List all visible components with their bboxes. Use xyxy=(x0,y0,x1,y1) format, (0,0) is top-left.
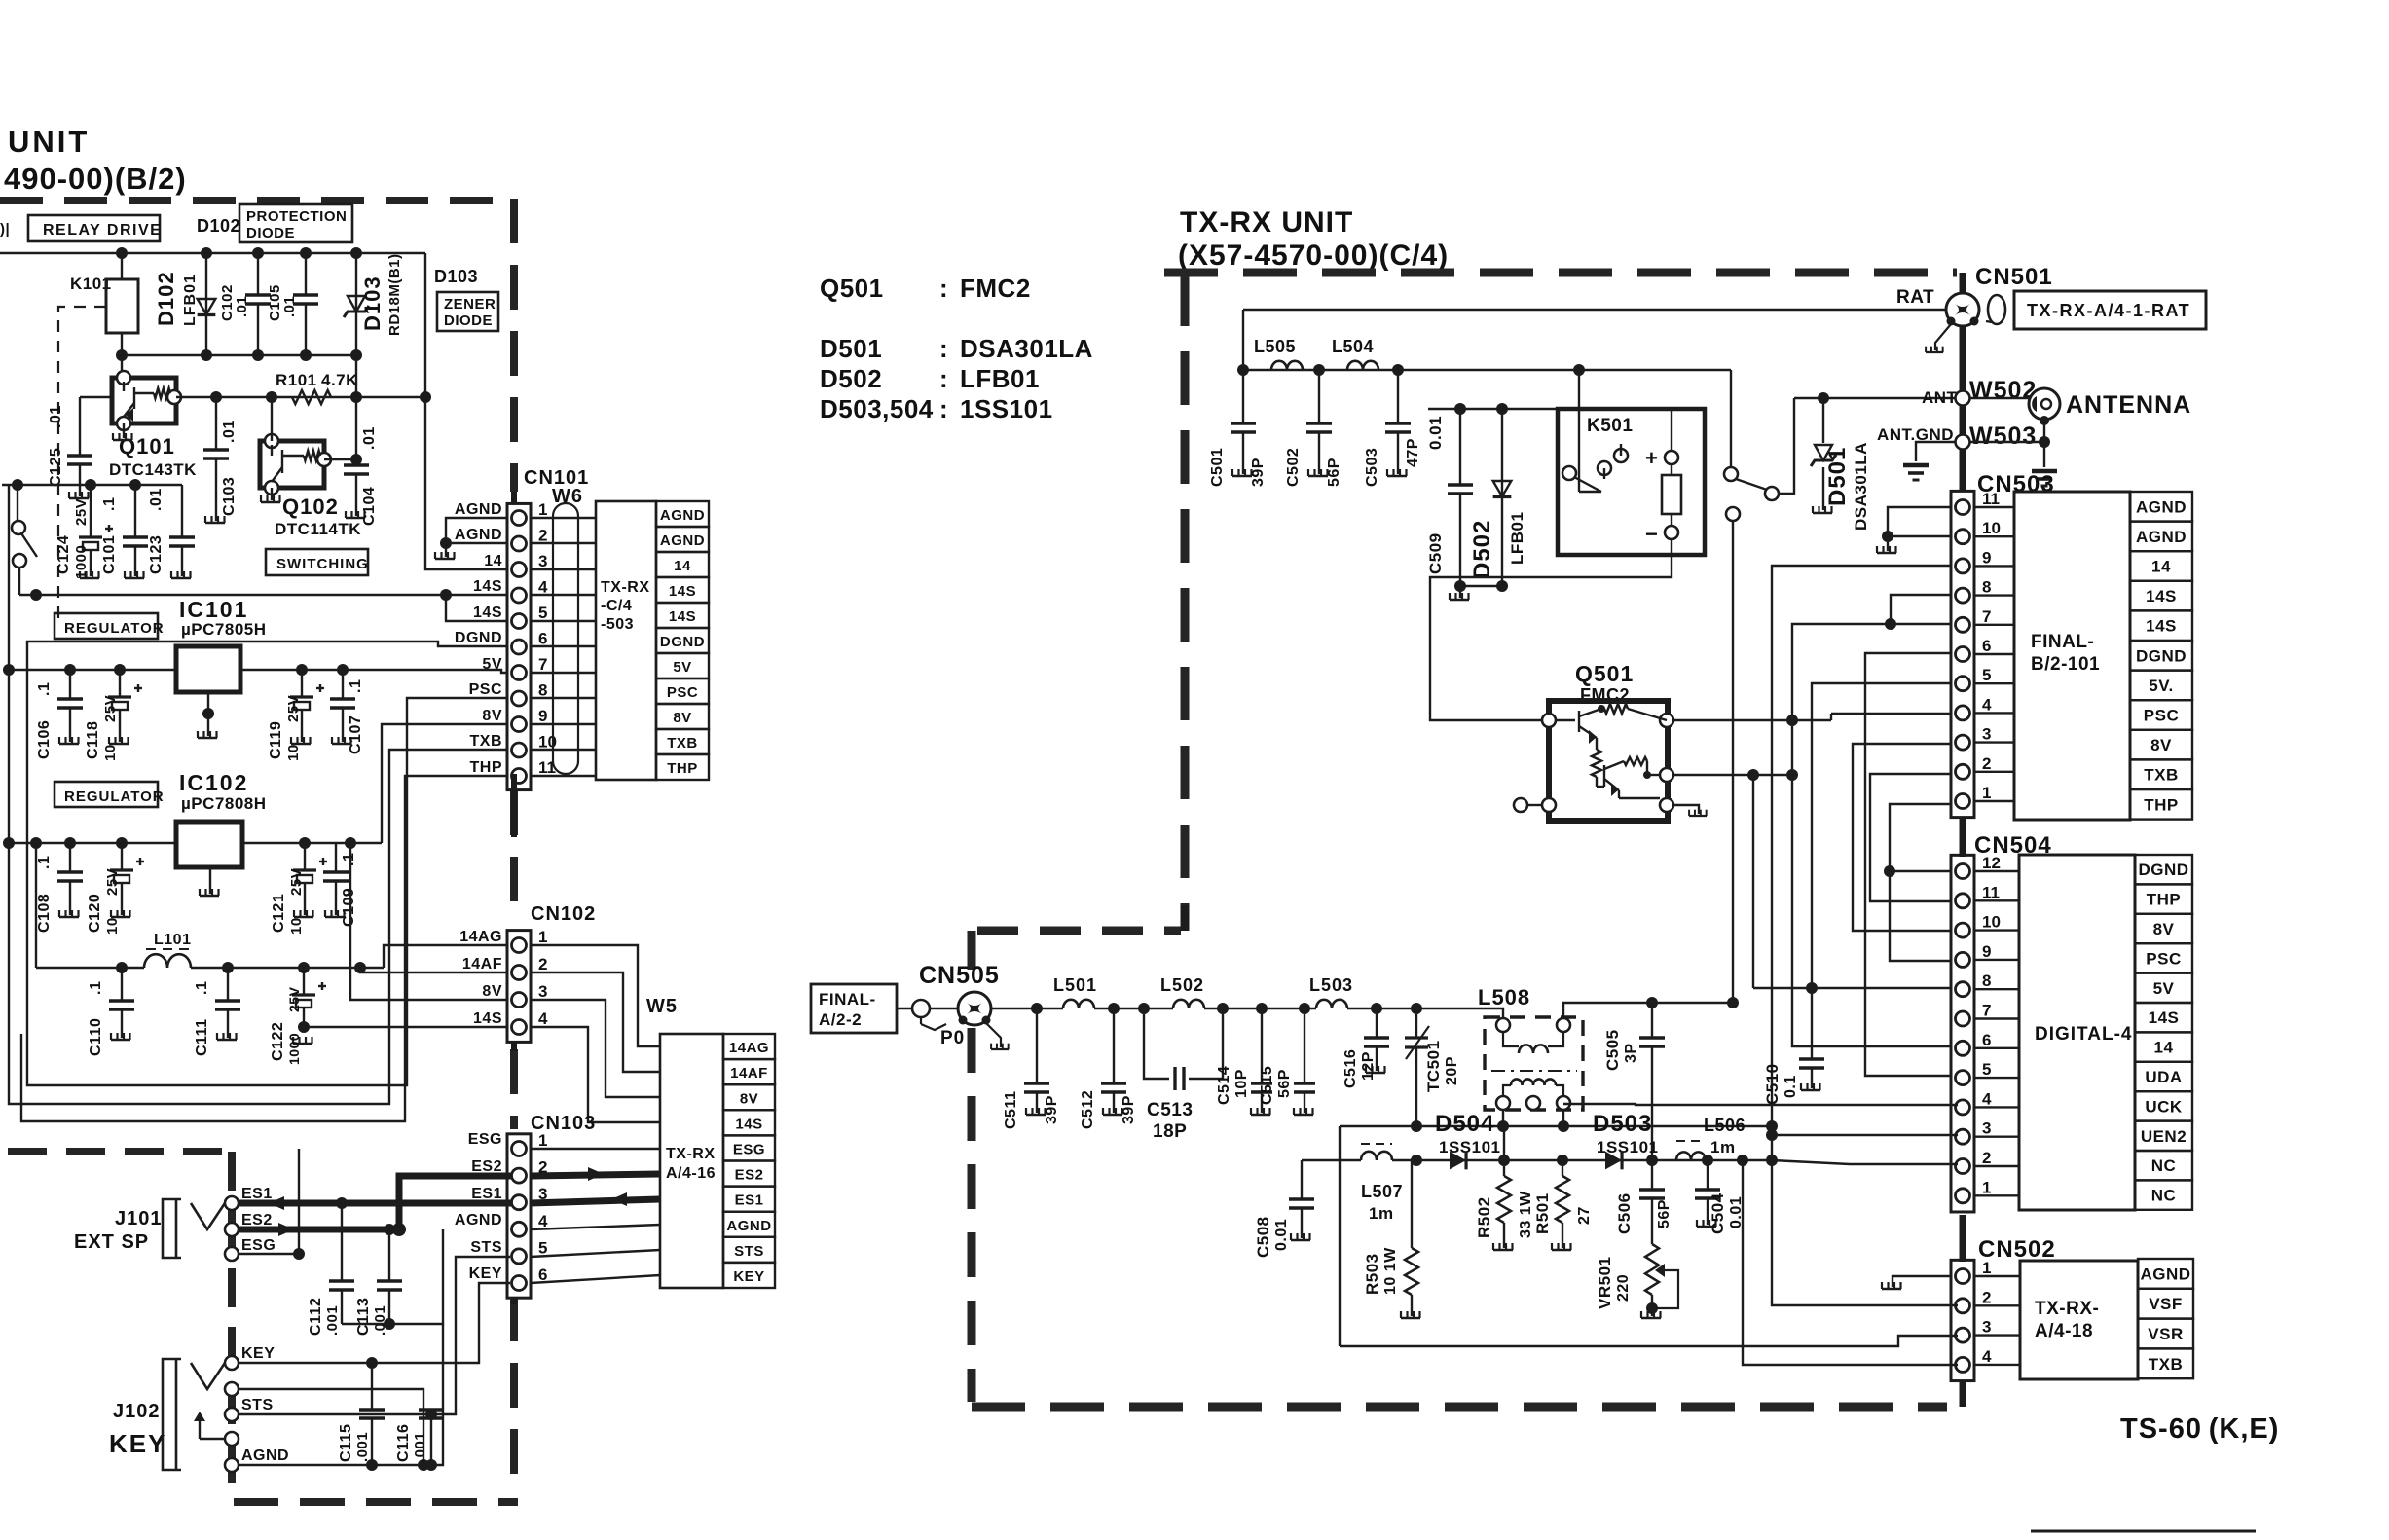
svg-text:D504: D504 xyxy=(1435,1111,1494,1137)
svg-text:NC: NC xyxy=(2151,1187,2177,1205)
wire TXB drop to CN502 pin4 xyxy=(1743,1160,1958,1365)
wire CN503 pin3 nest to CN504 pin10 xyxy=(1853,744,1958,931)
svg-text:.1: .1 xyxy=(88,981,104,995)
capacitor C508 0.01 xyxy=(1301,1160,1303,1192)
svg-text:14AF: 14AF xyxy=(462,956,502,972)
svg-text:D503,504: D503,504 xyxy=(820,394,934,423)
svg-text:DGND: DGND xyxy=(2138,861,2188,879)
svg-text:2: 2 xyxy=(538,955,547,973)
svg-text:4: 4 xyxy=(538,1212,548,1230)
svg-text:.1: .1 xyxy=(101,497,118,511)
svg-text:ZENER: ZENER xyxy=(444,296,496,312)
coax cable oval xyxy=(1988,295,2005,324)
capacitor C112 .001 xyxy=(329,1203,354,1324)
svg-text::: : xyxy=(939,364,948,393)
svg-text:D502: D502 xyxy=(1469,520,1495,579)
svg-text:D103: D103 xyxy=(434,267,478,286)
svg-text:.01: .01 xyxy=(221,420,238,443)
antenna switch xyxy=(1724,467,1738,481)
svg-text:D503: D503 xyxy=(1593,1111,1652,1137)
L508 divider xyxy=(1491,1070,1577,1072)
transistor Q101 DTC143TK xyxy=(112,378,176,423)
pin name table TX-RX-A/4-16 xyxy=(723,1034,775,1288)
capacitor C109 .1 xyxy=(323,843,349,915)
svg-text:FMC2: FMC2 xyxy=(960,274,1031,303)
svg-text:J102: J102 xyxy=(113,1401,161,1422)
svg-text:5V: 5V xyxy=(2153,979,2175,998)
IC102 regulator box xyxy=(176,822,242,867)
svg-text:TS-60 (K,E): TS-60 (K,E) xyxy=(2120,1413,2279,1445)
svg-text:D502: D502 xyxy=(820,364,882,393)
capacitor C115 .001 xyxy=(359,1363,385,1465)
wire TX line from switch to filter xyxy=(1732,521,1734,1003)
svg-text:C104: C104 xyxy=(361,487,378,526)
wire W502 ANT to ANTENNA xyxy=(1969,397,2030,399)
svg-text:TX-RX-: TX-RX- xyxy=(2035,1299,2099,1319)
svg-text:AGND: AGND xyxy=(455,527,502,543)
svg-text:L503: L503 xyxy=(1309,975,1353,995)
CN101 connector stem top xyxy=(511,492,517,504)
capacitor C107 .1 xyxy=(330,670,355,742)
node dots on top rail xyxy=(116,247,128,259)
svg-text:14AG: 14AG xyxy=(729,1040,769,1056)
svg-text:C516: C516 xyxy=(1342,1049,1359,1088)
svg-text:.1: .1 xyxy=(348,679,364,693)
wire rail L502 to L503 xyxy=(1204,1008,1316,1009)
svg-text:C512: C512 xyxy=(1080,1090,1096,1129)
svg-text:0.01: 0.01 xyxy=(1426,416,1445,450)
svg-text:8V: 8V xyxy=(740,1090,758,1107)
destination box DIGITAL-4 xyxy=(2019,855,2135,1210)
wire CN503 pin4 from Q501 collector xyxy=(1831,713,1952,715)
svg-text:.001: .001 xyxy=(412,1432,428,1462)
wire switch riser from filter rail xyxy=(1730,370,1732,467)
resistor R502 33 1W xyxy=(1503,1160,1505,1176)
wire filter loop y=1157 xyxy=(1340,1125,1772,1127)
svg-text:C511: C511 xyxy=(1003,1091,1019,1129)
wire ESG jack to riser xyxy=(239,1253,299,1255)
svg-text:8V: 8V xyxy=(482,708,502,724)
wires CN502 pins to box xyxy=(1974,1275,2020,1277)
wire RAT line xyxy=(1243,309,1945,311)
svg-text:ES2: ES2 xyxy=(471,1158,502,1175)
svg-text:14S: 14S xyxy=(2149,1008,2180,1027)
CN505 sense contact xyxy=(912,1000,930,1017)
svg-text:27: 27 xyxy=(1576,1206,1593,1225)
node ANT.GND xyxy=(1956,435,1970,450)
svg-text:C119: C119 xyxy=(268,721,284,759)
wire: IC102 input rail y=866 xyxy=(9,842,176,844)
svg-text:7: 7 xyxy=(1982,1002,1991,1020)
svg-text:CN102: CN102 xyxy=(531,903,596,925)
wire: 8V riser to CN101 pin9 xyxy=(382,724,510,843)
svg-text:25V: 25V xyxy=(285,695,302,722)
wire CN504 pin4 from riser xyxy=(1772,1134,1958,1136)
svg-text:.1: .1 xyxy=(194,981,210,995)
chassis dashed border top xyxy=(8,1148,226,1155)
svg-text:UNIT: UNIT xyxy=(8,125,90,159)
svg-text:AGND: AGND xyxy=(241,1448,289,1464)
svg-text:14S: 14S xyxy=(473,605,502,621)
wire: CN101 pin11 THP long loop xyxy=(21,776,510,1121)
destination box TX-RX-A/4-18 xyxy=(2020,1261,2138,1379)
wire: IC101 ground pin xyxy=(207,692,209,736)
capacitor C510 0.1 xyxy=(1799,988,1824,1088)
wire L508 top right to C505 rail xyxy=(1563,1003,1733,1018)
svg-text:9: 9 xyxy=(1982,942,1991,961)
svg-text:VSR: VSR xyxy=(2148,1325,2183,1343)
svg-text:C106: C106 xyxy=(36,720,53,759)
wire: D103 bottom to R101 rail xyxy=(355,355,357,397)
svg-text::: : xyxy=(939,334,948,363)
svg-text:D102: D102 xyxy=(197,216,240,236)
wire: 8V to CN102 pin3 xyxy=(350,843,510,1000)
electrolytic capacitor C124 1000 25V xyxy=(79,485,113,576)
svg-text:ESG: ESG xyxy=(468,1131,502,1148)
capacitor C511 39P xyxy=(1024,1008,1049,1113)
wire ANTENNA shield to W503 xyxy=(2040,416,2049,425)
svg-text:Q501: Q501 xyxy=(820,274,884,303)
inductor L503 xyxy=(1316,1000,1347,1008)
svg-text:PSC: PSC xyxy=(2144,707,2179,725)
svg-text:TC501: TC501 xyxy=(1424,1040,1443,1092)
svg-text:STS: STS xyxy=(470,1239,502,1256)
wires CN503 pins to FINAL box xyxy=(1974,506,2014,508)
svg-text:TX-RX UNIT: TX-RX UNIT xyxy=(1180,206,1353,238)
svg-text:33 1W: 33 1W xyxy=(1518,1191,1534,1238)
wire filter loop bottom to CN502 pin3 xyxy=(1340,1336,1958,1346)
svg-text:2: 2 xyxy=(538,527,547,545)
wire CN503 pin6 to CN504 pin6 drop xyxy=(1865,653,1958,1076)
wires CN101 pins to TX-RX-C/4-503 xyxy=(531,517,596,519)
svg-text:TX-RX: TX-RX xyxy=(601,579,650,596)
svg-text:C510: C510 xyxy=(1763,1063,1782,1105)
transistor Q102 DTC114TK xyxy=(260,441,324,488)
L508 top winding xyxy=(1496,1018,1510,1032)
svg-text:C502: C502 xyxy=(1285,448,1302,487)
svg-text:W503: W503 xyxy=(1969,422,2037,450)
svg-text:C124: C124 xyxy=(55,535,72,574)
svg-text:11: 11 xyxy=(1982,490,2000,508)
left unit dashed border right side below CN103 xyxy=(510,1297,518,1495)
inductor L505 xyxy=(1271,361,1303,370)
svg-text:0.01: 0.01 xyxy=(1273,1219,1290,1251)
svg-text:L502: L502 xyxy=(1160,975,1204,995)
J102 tip arrow xyxy=(200,1438,225,1440)
capacitor C512 39P xyxy=(1101,1008,1126,1113)
J102 contact circles xyxy=(225,1356,239,1370)
svg-text:EXT SP: EXT SP xyxy=(74,1231,149,1253)
svg-text:ANT: ANT xyxy=(1922,388,1958,407)
svg-text:14S: 14S xyxy=(2146,587,2177,605)
wire C509/D502 top rail xyxy=(1428,408,1558,410)
svg-text:L501: L501 xyxy=(1053,975,1097,995)
svg-text:.1: .1 xyxy=(341,853,357,866)
node ANT xyxy=(1956,391,1970,406)
wire 5V drop from Q501 row to C510 rail xyxy=(1752,775,1754,988)
svg-text:−: − xyxy=(1645,522,1658,546)
right unit dashed border bottom xyxy=(972,1403,1947,1412)
svg-text:C514: C514 xyxy=(1216,1066,1232,1105)
resistor R501 27 xyxy=(1562,1160,1563,1176)
IC101 regulator box xyxy=(176,646,240,692)
svg-text:DGND: DGND xyxy=(455,630,502,646)
svg-text:AGND: AGND xyxy=(455,1212,502,1228)
svg-text:ES2: ES2 xyxy=(735,1167,764,1184)
connector CN504 xyxy=(1951,855,1974,1212)
svg-text:Q501: Q501 xyxy=(1575,661,1634,686)
wire: IC101 input rail y=688 xyxy=(9,669,176,671)
regulator callout box 1 xyxy=(55,613,158,639)
wire CN503 pin11 to pin10 AGND tie xyxy=(1888,507,1952,536)
CN504 stem top xyxy=(1960,819,1966,857)
svg-text:18P: 18P xyxy=(1153,1121,1187,1142)
wire STS to CN103 pin5 xyxy=(239,1257,510,1414)
svg-text:1: 1 xyxy=(538,500,547,519)
svg-text:C513: C513 xyxy=(1147,1100,1193,1120)
wire CN503 pin9 long drop to filter box loop xyxy=(1772,566,1952,1160)
svg-text:2: 2 xyxy=(1982,1288,1991,1306)
vertical from D504 node to L508 xyxy=(1503,1126,1505,1160)
svg-text:DIODE: DIODE xyxy=(444,312,493,329)
wire Q501 collector to PSC node xyxy=(1673,719,1831,721)
svg-text:14S: 14S xyxy=(473,578,502,595)
svg-text:14S: 14S xyxy=(735,1116,762,1132)
svg-text:AGND: AGND xyxy=(726,1218,771,1234)
wire: main top rail y=260 xyxy=(0,252,425,254)
ground C509/D502 xyxy=(1450,593,1469,600)
svg-text:C120: C120 xyxy=(87,894,103,933)
destination box TX-RX-C/4-503 xyxy=(596,501,656,780)
svg-text:IC102: IC102 xyxy=(179,770,248,795)
regulator callout box 2 xyxy=(55,782,158,807)
pin name table DIGITAL-4 xyxy=(2135,855,2192,1210)
svg-text:DIODE: DIODE xyxy=(246,225,295,241)
svg-text:C118: C118 xyxy=(85,721,101,759)
svg-text:SWITCHING: SWITCHING xyxy=(276,556,369,572)
corner from RAT line down to filter rail xyxy=(1242,310,1244,370)
wire CN503 pin8 tie to pin7 xyxy=(1891,595,1952,624)
electrolytic capacitor C121 10 25V xyxy=(293,843,327,915)
left-edge supply bus xyxy=(8,485,10,843)
left unit dashed border bottom xyxy=(234,1498,518,1506)
wire: R101 rail y=408 xyxy=(176,396,425,398)
svg-text:56P: 56P xyxy=(1656,1199,1672,1228)
svg-text:25V: 25V xyxy=(288,868,305,896)
svg-text:D103: D103 xyxy=(360,275,385,331)
svg-text:L504: L504 xyxy=(1332,337,1374,356)
svg-text:L506: L506 xyxy=(1704,1116,1746,1135)
svg-text:14: 14 xyxy=(2151,558,2171,576)
connector CN502 xyxy=(1951,1260,1974,1380)
capacitor C105 .01 xyxy=(293,253,318,355)
svg-text:C501: C501 xyxy=(1209,448,1226,487)
svg-text:C103: C103 xyxy=(221,477,238,516)
svg-text:4: 4 xyxy=(1982,1347,1992,1366)
svg-text:-C/4: -C/4 xyxy=(601,598,632,614)
svg-text:ANTENNA: ANTENNA xyxy=(2066,391,2191,419)
pin name table at CN101 xyxy=(656,501,709,780)
svg-text:AGND: AGND xyxy=(2136,497,2187,516)
capacitor C125 .01 xyxy=(67,397,92,496)
svg-text:C110: C110 xyxy=(88,1018,104,1056)
capacitor C503 47P xyxy=(1385,370,1411,474)
svg-text:47P: 47P xyxy=(1405,438,1421,467)
wire CN503 pin5 to C510 node drop xyxy=(1812,683,1952,988)
svg-text:R501: R501 xyxy=(1533,1192,1552,1234)
svg-text:C505: C505 xyxy=(1603,1029,1622,1071)
svg-text:1000: 1000 xyxy=(73,545,90,579)
svg-text:µPC7808H: µPC7808H xyxy=(181,794,267,813)
wire CN504 pin3 from rail xyxy=(1772,1160,1958,1164)
svg-text:TX-RX-A/4-1-RAT: TX-RX-A/4-1-RAT xyxy=(2027,301,2190,320)
svg-text:C125: C125 xyxy=(48,448,64,487)
svg-text:.001: .001 xyxy=(324,1305,341,1336)
capacitor C509 0.01 xyxy=(1448,409,1473,586)
svg-text:C107: C107 xyxy=(348,715,364,754)
svg-text:TXB: TXB xyxy=(667,735,698,752)
svg-text:4.7K: 4.7K xyxy=(321,371,358,389)
zener diode callout box xyxy=(437,292,498,331)
svg-text:THP: THP xyxy=(667,760,698,777)
svg-text:TXB: TXB xyxy=(2149,1355,2184,1374)
power switch xyxy=(17,485,18,521)
svg-text:39P: 39P xyxy=(1044,1095,1060,1124)
svg-text:20P: 20P xyxy=(1444,1056,1460,1085)
svg-text:L507: L507 xyxy=(1361,1182,1403,1201)
destination box FINAL-B/2-101 xyxy=(2014,492,2130,820)
zener diode D501 DSA301LA xyxy=(1822,398,1824,443)
svg-text:.01: .01 xyxy=(281,296,298,317)
svg-text:56P: 56P xyxy=(1276,1069,1293,1098)
svg-text:KEY: KEY xyxy=(109,1429,166,1458)
svg-text:3: 3 xyxy=(1982,725,1991,744)
wire CN503 pin1 nest to CN504 pin12 xyxy=(1890,804,1958,871)
svg-text:THP: THP xyxy=(2144,795,2179,814)
svg-text:D501: D501 xyxy=(820,334,882,363)
wire: lower rail y=365 joining diode/cap bottoms xyxy=(122,354,356,356)
svg-text:8V: 8V xyxy=(2153,920,2175,938)
capacitor C123 .01 xyxy=(169,485,195,576)
CN502 stem bottom xyxy=(1960,1382,1966,1407)
svg-text:14: 14 xyxy=(674,558,691,574)
electrolytic capacitor C120 10 25V xyxy=(110,843,144,915)
capacitor C103 .01 xyxy=(203,397,229,521)
wire AGND row to CN103 pin4 riser xyxy=(239,1324,443,1465)
capacitor C514 10P xyxy=(1251,1008,1272,1113)
svg-text:RAT: RAT xyxy=(1896,287,1934,308)
svg-text:.1: .1 xyxy=(36,682,53,696)
svg-text:1m: 1m xyxy=(1710,1138,1736,1156)
left unit dashed border right side between CN101 and CN102 xyxy=(510,790,518,920)
svg-text:25V: 25V xyxy=(286,986,302,1012)
electrolytic capacitor C118 10 25V xyxy=(108,670,142,742)
trimmer capacitor TC501 20P xyxy=(1415,1008,1417,1038)
svg-text:10P: 10P xyxy=(1233,1069,1250,1098)
svg-text:ES2: ES2 xyxy=(241,1212,273,1228)
svg-text:NC: NC xyxy=(2151,1156,2177,1175)
svg-text:5V: 5V xyxy=(482,656,502,673)
svg-text:DGND: DGND xyxy=(660,634,705,650)
wire W503 from bus to antenna ground xyxy=(1969,441,2044,443)
diode D502 LFB01 xyxy=(1501,409,1503,586)
svg-text:L505: L505 xyxy=(1254,337,1296,356)
svg-text:39P: 39P xyxy=(1121,1095,1137,1124)
svg-text:CN505: CN505 xyxy=(919,962,1000,989)
capacitor C108 .1 xyxy=(57,843,83,915)
wire rail L503 to L508 xyxy=(1347,1008,1503,1020)
svg-text:VR501: VR501 xyxy=(1596,1257,1614,1309)
svg-text:C122: C122 xyxy=(270,1022,286,1061)
svg-text:C115: C115 xyxy=(338,1424,354,1462)
svg-text:5V: 5V xyxy=(673,659,691,676)
wire: Q101 emitter to ground xyxy=(123,423,125,438)
inductor L504 xyxy=(1347,361,1378,370)
wire: CN101 pin10 TXB long loop xyxy=(9,750,510,1104)
wire rail corner down to CN502 pin2 xyxy=(1772,1160,1958,1305)
wire CN503 pin7 to CN504 pin7 drop xyxy=(1792,624,1958,1046)
svg-text:RD18M(B1): RD18M(B1) xyxy=(386,253,403,336)
wire: to CN102 pin2 xyxy=(360,968,510,972)
svg-text:Q101: Q101 xyxy=(119,434,175,458)
ground at CN101 AGND xyxy=(445,543,447,557)
Q501 emitter test point xyxy=(1526,804,1542,806)
svg-text:6: 6 xyxy=(1982,1031,1991,1049)
svg-text:.01: .01 xyxy=(148,488,165,511)
svg-text:ESG: ESG xyxy=(733,1141,765,1157)
capacitor C102 .01 xyxy=(245,253,271,355)
svg-text:R503: R503 xyxy=(1363,1253,1381,1295)
right unit dashed border notch horizontal xyxy=(977,927,1181,935)
right unit dashed border CN505 column lower xyxy=(968,1028,976,1402)
capacitor C104 .01 xyxy=(344,397,369,516)
svg-text:8: 8 xyxy=(538,681,547,700)
svg-text:-503: -503 xyxy=(601,616,634,633)
svg-text:1SS101: 1SS101 xyxy=(960,394,1053,423)
svg-text:10 1W: 10 1W xyxy=(1382,1247,1399,1295)
svg-text:0.1: 0.1 xyxy=(1783,1075,1799,1098)
wire: Q102 emitter ground xyxy=(271,488,273,500)
svg-text:REGULATOR: REGULATOR xyxy=(64,788,165,805)
svg-text:8: 8 xyxy=(1982,972,1991,990)
svg-text:8V: 8V xyxy=(673,710,691,726)
svg-text:.01: .01 xyxy=(48,405,64,428)
svg-text:8V: 8V xyxy=(482,983,502,1000)
svg-text:5: 5 xyxy=(538,604,547,622)
svg-text:6: 6 xyxy=(538,630,547,648)
cable loop W6 xyxy=(553,503,578,774)
wires CN103 pins to TX-RX-A/4-16 box xyxy=(531,1148,660,1150)
wire CN503 pin10 AGND with ground xyxy=(1888,535,1952,537)
stray line at bottom edge xyxy=(2031,1530,2256,1533)
electrolytic capacitor C122 1000 25V xyxy=(292,968,326,1027)
inductor L501 xyxy=(1063,1000,1094,1008)
wire FINAL-A/2-2 to CN505 xyxy=(897,1008,959,1009)
svg-text:L101: L101 xyxy=(154,932,191,948)
svg-text:39P: 39P xyxy=(1250,458,1267,487)
switch TX contact xyxy=(1726,507,1740,521)
svg-text:LFB01: LFB01 xyxy=(182,274,199,326)
svg-text:4: 4 xyxy=(1982,695,1992,714)
right unit dashed border CN505 column upper xyxy=(968,931,976,989)
svg-text:C111: C111 xyxy=(194,1019,210,1056)
svg-text:C101: C101 xyxy=(101,535,118,574)
svg-text:THP: THP xyxy=(2147,891,2182,909)
svg-text:10: 10 xyxy=(104,917,121,935)
svg-text:C109: C109 xyxy=(341,888,357,927)
wire: tie CN101 pin5 to pin4 rail xyxy=(446,595,510,621)
svg-text:1: 1 xyxy=(1982,1259,1991,1277)
